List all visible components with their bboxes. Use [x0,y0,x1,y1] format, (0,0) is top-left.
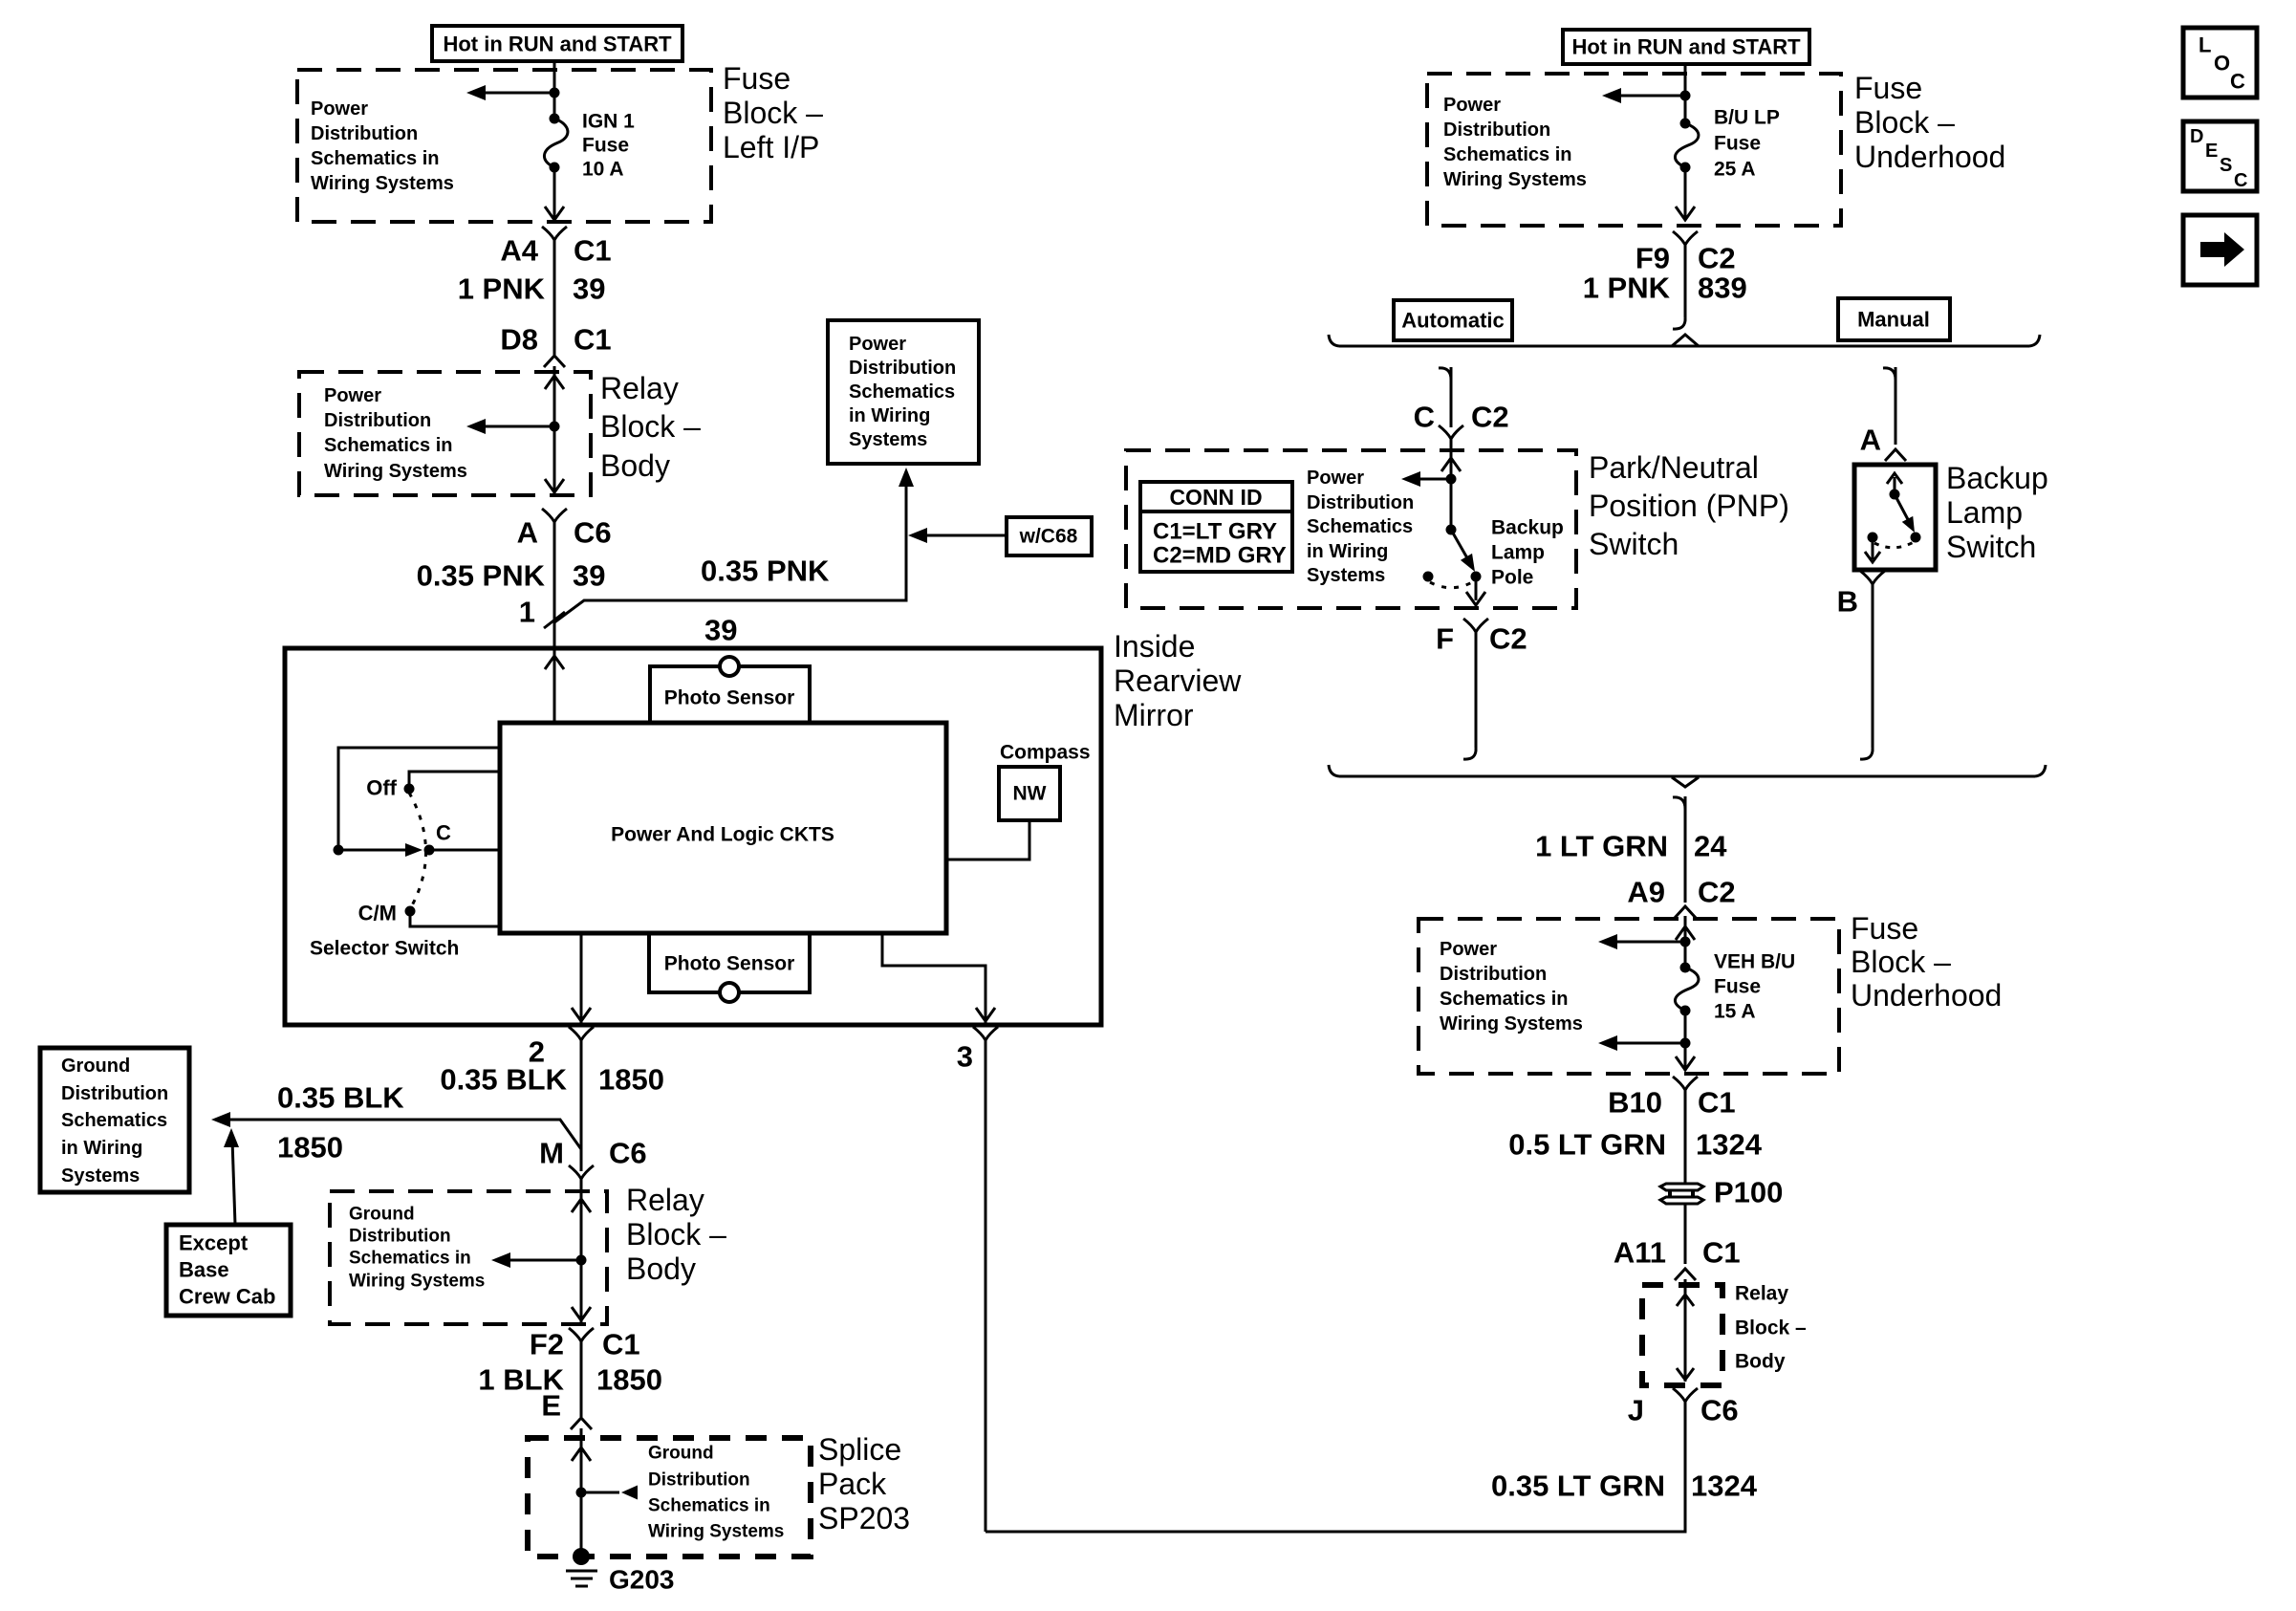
off-page arrow (fuse block left) [466,85,554,100]
backup lamp pole contact dot [1471,572,1482,582]
w/C68 box [1007,517,1092,555]
svg-text:Fuse: Fuse [582,135,629,157]
svg-text:Distribution: Distribution [61,1083,168,1104]
wire: circuit 39 segment [553,240,556,355]
junction dot relay block [550,422,560,432]
label M and C6 [539,1137,646,1170]
photo sensor (bottom) [649,933,810,1002]
ground distribution schematics solid box [40,1048,189,1192]
arrow up inside splice pack [572,1448,591,1461]
svg-text:Wiring Systems: Wiring Systems [311,173,454,194]
inside rearview mirror box [285,648,1101,1025]
label box: Hot in RUN and START (right) [1563,30,1809,64]
svg-text:Ground: Ground [648,1444,714,1464]
svg-text:0.5 LT GRN: 0.5 LT GRN [1508,1128,1666,1162]
connector fork J/C6 [1673,1388,1698,1402]
text: power distribution schematics (underhood top) [1443,95,1587,190]
svg-text:Ground: Ground [349,1205,415,1225]
svg-text:39: 39 [573,559,605,593]
wire pole to box edge [1475,577,1478,600]
junction dot underhood lower (bottom) [1680,1038,1691,1049]
svg-text:Schematics: Schematics [61,1110,167,1131]
svg-text:Distribution: Distribution [648,1470,750,1491]
wire into underhood lower [1684,916,1687,968]
svg-text:Schematics in: Schematics in [311,148,440,169]
svg-text:Wiring Systems: Wiring Systems [1443,169,1587,190]
svg-text:Off: Off [366,776,397,800]
wire P100 to A11 [1684,1204,1687,1264]
svg-text:in Wiring: in Wiring [61,1138,142,1159]
text: ground distribution schematics (splice pack) [648,1444,784,1542]
backup lamp switch box [1854,465,1936,570]
connector fork F2/C1 [569,1328,594,1341]
svg-text:Distribution: Distribution [1440,964,1547,985]
svg-text:Except: Except [179,1231,249,1255]
backup switch arm [1895,494,1920,535]
arrow up inside relay right [1677,1295,1694,1306]
arrow down PNP exit [1466,592,1485,605]
svg-text:NW: NW [1013,783,1047,805]
selector switch bracket wire [338,748,500,845]
svg-text:C6: C6 [574,516,612,550]
svg-text:1: 1 [519,596,535,629]
arrow down relay right exit [1677,1368,1694,1380]
PNP switch arm with arrowhead [1451,530,1481,576]
svg-text:F2: F2 [530,1328,564,1361]
svg-text:IGN 1: IGN 1 [582,111,635,133]
text: power distribution schematics (relay block) [324,385,467,482]
hook 1 LT GRN wire start [1673,797,1685,809]
svg-text:1850: 1850 [277,1131,343,1165]
upper bus left curl [1329,335,1339,346]
svg-text:C/M: C/M [358,902,397,925]
automatic branch wire [1450,367,1453,427]
svg-text:Power: Power [849,334,906,355]
svg-text:Ground: Ground [61,1056,130,1077]
connector fork M/C6 [569,1165,594,1179]
hook at 1 PNK wire end [1673,317,1685,329]
wire fuse output underhood [1684,167,1687,218]
svg-text:SP203: SP203 [818,1501,910,1535]
svg-text:Schematics in: Schematics in [349,1249,471,1269]
legend arrow box [2183,215,2257,285]
labels 0.35 PNK 39 [417,559,606,593]
PNP switch pole dot [1446,525,1457,535]
label: Inside Rearview Mirror [1114,629,1242,732]
svg-text:C: C [2234,170,2247,191]
wire: 0.35 PNK segment to mirror [553,522,556,648]
svg-text:in Wiring: in Wiring [849,405,930,426]
wire through relay block lower [580,1179,583,1322]
label: Backup Lamp Pole [1491,517,1564,589]
svg-text:Distribution: Distribution [1307,492,1414,513]
svg-text:Switch: Switch [1589,527,1679,561]
svg-text:Backup: Backup [1491,517,1564,539]
legend LOC box [2183,28,2257,98]
svg-text:Wiring Systems: Wiring Systems [648,1522,784,1542]
svg-text:Distribution: Distribution [324,410,431,431]
svg-text:CONN ID: CONN ID [1169,485,1262,510]
svg-text:Systems: Systems [1307,565,1385,586]
arrow down relay block exit [545,479,564,492]
wire: branch 0.35 PNK 39 to w/C68 [554,478,906,622]
label: Relay Block - Body (right) [1735,1283,1807,1373]
inline connector P100 [1660,1184,1703,1204]
arrow down underhood lower exit [1676,1056,1695,1070]
fuse block underhood dashed box (lower) [1419,919,1839,1074]
connector chevron D8 [544,356,565,367]
connector fork pin 3 [973,1027,998,1040]
off-page arrow lower (underhood lower) [1598,1035,1685,1051]
label: Backup Lamp Switch [1946,461,2048,564]
labels 0.35 LT GRN 1324 [1491,1469,1758,1503]
svg-text:Schematics: Schematics [849,381,955,403]
backup switch left contact dot [1868,533,1878,543]
manual branch hook [1883,368,1895,380]
svg-text:C6: C6 [609,1137,647,1170]
labels J C6 [1628,1394,1739,1427]
junction dot underhood lower (top) [1680,937,1691,947]
arrow except box to branch [224,1128,239,1225]
svg-text:Park/Neutral: Park/Neutral [1589,450,1759,485]
svg-text:C: C [2230,70,2245,94]
svg-text:Block –: Block – [1851,945,1951,979]
fuse VEH B/U 15 A [1675,951,1795,1023]
svg-text:C2: C2 [1489,622,1527,656]
connector fork F9/C2 [1673,231,1698,245]
relay block body dashed box (left lower) [330,1191,607,1324]
wire pin 3 inside mirror [882,933,986,1023]
automatic branch hook [1439,368,1451,380]
hook B wire end [1860,748,1873,759]
svg-text:1 PNK: 1 PNK [1583,272,1671,305]
svg-text:w/C68: w/C68 [1019,526,1078,548]
wire 1 PNK 839 [1684,245,1687,317]
park/neutral position switch dashed box [1126,450,1576,608]
wire B to lower bus [1872,584,1874,748]
svg-text:P100: P100 [1714,1176,1783,1209]
svg-text:Hot in RUN and START: Hot in RUN and START [443,33,672,56]
connector fork B10/C1 [1673,1077,1698,1090]
wire: hot feed underhood [1684,64,1687,123]
svg-text:C2: C2 [1471,401,1509,434]
svg-text:Crew Cab: Crew Cab [179,1285,275,1309]
svg-text:0.35 BLK: 0.35 BLK [440,1063,567,1097]
svg-text:10 A: 10 A [582,159,624,181]
svg-text:Wiring Systems: Wiring Systems [349,1272,485,1292]
svg-text:Photo Sensor: Photo Sensor [664,953,795,975]
svg-text:Backup: Backup [1946,461,2048,495]
svg-text:B/U LP: B/U LP [1714,107,1780,129]
contact C dot and wire [424,845,501,856]
off-page arrow (underhood top) [1602,88,1685,103]
labels 0.5 LT GRN 1324 [1508,1128,1763,1162]
off-page arrow (PNP) [1401,471,1451,487]
wire pin 2 to M/C6 [580,1040,583,1171]
branch labels 0.35 PNK 39 [701,555,830,647]
lower bus merge chevron [1672,777,1699,787]
svg-text:C1=LT GRY: C1=LT GRY [1153,519,1277,545]
svg-text:0.35 PNK: 0.35 PNK [417,559,546,593]
off-page arrow (splice pack) [581,1486,638,1500]
selector dashed arc [409,793,426,907]
svg-text:Photo Sensor: Photo Sensor [664,687,795,709]
wire 1 LT GRN 24 [1684,796,1687,903]
svg-text:Power And Logic CKTS: Power And Logic CKTS [611,824,834,846]
svg-text:Power: Power [1440,939,1497,960]
svg-text:in Wiring: in Wiring [1307,541,1388,562]
labels 1 LT GRN 24 [1535,830,1727,863]
svg-text:Block –: Block – [626,1217,726,1252]
ground branch wire 0.35 BLK 1850 [211,1112,581,1149]
wire through relay block [553,366,556,493]
label box: Hot in RUN and START (left) [432,26,682,61]
contact C/M dot and wire [405,906,501,927]
svg-text:Mirror: Mirror [1114,698,1194,732]
arrow down relay lower exit [572,1307,591,1320]
labels 1 BLK 1850 [478,1363,662,1397]
svg-text:Distribution: Distribution [849,358,956,379]
junction dot splice pack [576,1488,587,1498]
labels A C6 [517,516,612,550]
connector fork A4/C1 [542,227,567,240]
svg-text:M: M [539,1137,564,1170]
svg-text:J: J [1628,1394,1644,1427]
svg-text:Fuse: Fuse [1851,911,1918,946]
svg-text:Block –: Block – [600,409,701,444]
off-page arrow upper (underhood lower) [1598,934,1685,949]
svg-text:Fuse: Fuse [723,61,791,96]
backup switch right contact dot [1911,533,1921,543]
svg-text:1850: 1850 [598,1063,664,1097]
arrow up into power dist box [899,468,914,487]
wire into PNP box [1450,439,1453,485]
svg-text:Hot in RUN and START: Hot in RUN and START [1571,35,1801,59]
svg-text:Pack: Pack [818,1467,887,1501]
labels F9 C2 [1635,242,1736,275]
svg-text:1 LT GRN: 1 LT GRN [1535,830,1668,863]
label: Fuse Block - Left I/P [723,61,823,164]
svg-text:Splice: Splice [818,1432,901,1467]
svg-text:Underhood: Underhood [1851,978,2002,1012]
connector fork pin 2 [569,1027,594,1040]
label: Fuse Block - Underhood (lower) [1851,911,2002,1012]
svg-text:0.35 LT GRN: 0.35 LT GRN [1491,1469,1665,1503]
svg-text:C1: C1 [574,323,612,357]
svg-text:Distribution: Distribution [311,123,418,144]
PNP left contact dot [1423,572,1434,582]
svg-text:Switch: Switch [1946,530,2036,564]
connector fork B [1860,571,1885,584]
svg-text:Left I/P: Left I/P [723,130,819,164]
wire 0.35 LT GRN 1324 down and across [986,1402,1685,1532]
svg-text:1 PNK: 1 PNK [458,272,546,306]
arrowhead down underhood exit [1676,207,1695,220]
wire inside splice pack [580,1428,583,1557]
svg-text:B: B [1837,585,1858,619]
power distribution schematics solid box [828,320,979,464]
wire junction to switch arm [1450,479,1453,530]
connector chevron E [571,1418,592,1429]
power and logic CKTS box [500,723,946,933]
svg-text:S: S [2220,155,2232,176]
svg-text:D8: D8 [500,323,538,357]
photo sensor (top) [650,657,810,723]
backup switch dashed arc [1874,542,1914,548]
upper bus split chevron [1672,335,1699,346]
arrow up inside relay block [545,376,564,389]
svg-text:C2=MD GRY: C2=MD GRY [1153,543,1287,569]
svg-text:Rearview: Rearview [1114,664,1242,698]
svg-text:Lamp: Lamp [1491,542,1545,564]
svg-text:839: 839 [1698,272,1747,305]
svg-text:E: E [541,1389,561,1423]
wire F to lower bus [1475,632,1478,748]
relay block body dashed box (left upper) [299,372,591,495]
svg-text:Fuse: Fuse [1854,71,1922,105]
svg-text:3: 3 [957,1040,973,1074]
svg-text:Lamp: Lamp [1946,495,2023,530]
labels 1 PNK 839 [1583,272,1747,305]
svg-text:Relay: Relay [600,371,679,405]
svg-text:F9: F9 [1635,242,1670,275]
text: power distribution schematics (fuse block left) [311,98,454,194]
arrow down pin 3 [976,1008,995,1021]
lower bus left curl [1329,765,1339,776]
arrow up at mirror entry [545,656,564,669]
splice slash at node 1 [544,612,565,628]
svg-text:Position (PNP): Position (PNP) [1589,489,1789,523]
PNP dashed arc [1430,581,1474,588]
fuse IGN 1 10 A [544,111,635,181]
svg-text:Fuse: Fuse [1714,976,1761,998]
svg-text:O: O [2214,52,2230,76]
svg-text:1324: 1324 [1696,1128,1763,1162]
backup switch exit arrow [1865,537,1880,562]
svg-text:Inside: Inside [1114,629,1195,664]
junction dot PNP [1446,474,1457,485]
text: power distribution schematics (underhood lower) [1440,939,1583,1034]
labels A11 C1 [1614,1236,1741,1270]
label box: Automatic [1394,300,1512,340]
svg-text:A11: A11 [1614,1236,1666,1270]
connector fork A/C6 [542,509,567,522]
arrow up inside underhood lower [1676,926,1695,940]
label: Fuse Block - Underhood (top) [1854,71,2005,174]
svg-text:0.35 BLK: 0.35 BLK [277,1081,404,1115]
splice pack SP203 dashed box [528,1438,811,1557]
svg-text:G203: G203 [609,1565,675,1595]
off-page arrow (relay block) [466,419,554,434]
svg-text:L: L [2199,33,2211,57]
svg-text:1324: 1324 [1691,1469,1758,1503]
svg-text:B10: B10 [1608,1086,1662,1120]
manual branch wire [1895,367,1897,445]
wire: hot feed into fuse block left [553,61,556,119]
fuse block left I/P dashed box [297,70,711,222]
text: ground distribution schematics (relay block lower) [349,1205,485,1292]
wire through relay right [1684,1279,1687,1382]
labels B10 C1 [1608,1086,1736,1120]
off-page arrow (relay lower) [491,1252,581,1268]
svg-text:Manual: Manual [1857,308,1930,332]
connector fork F/C2 [1463,619,1488,632]
legend DESC box [2183,121,2257,191]
connector fork C/C2 [1439,425,1463,439]
svg-text:Relay: Relay [1735,1283,1788,1305]
svg-text:Distribution: Distribution [1443,120,1550,141]
svg-text:Schematics in: Schematics in [1440,989,1569,1010]
svg-text:24: 24 [1694,830,1727,863]
fuse B/U LP 25 A [1675,107,1779,181]
svg-text:Underhood: Underhood [1854,140,2005,174]
connector chevron A11 [1675,1269,1696,1280]
svg-text:Systems: Systems [61,1165,140,1186]
wire: fuse output [553,167,556,218]
svg-text:Relay: Relay [626,1183,704,1217]
wire fuse output underhood lower [1684,1011,1687,1071]
compass NW box [999,767,1060,820]
svg-text:15 A: 15 A [1714,1001,1756,1023]
wire pin 1 into mirror [553,648,556,723]
lower bus wire [1339,775,2035,778]
selector switch wiper arrow [338,843,422,857]
wire compass to logic box [946,820,1029,860]
lower bus right curl [2035,765,2046,776]
junction dot (fuse block left) [550,88,560,98]
junction dot (underhood top) [1680,91,1691,101]
connector fork A9/C2 [1675,906,1696,918]
arrow up inside relay lower [572,1199,591,1212]
contact Off dot and wire [404,772,501,795]
fuse block underhood dashed box (top) [1427,74,1841,226]
svg-text:C1: C1 [574,234,612,268]
svg-text:Schematics: Schematics [1307,516,1413,537]
arrow down pin 2 [572,1008,591,1021]
svg-text:Wiring Systems: Wiring Systems [1440,1013,1583,1034]
hook F wire end [1463,748,1476,759]
labels 1 PNK 39 [458,272,606,306]
arrow up inside PNP [1441,458,1461,471]
branch labels 0.35 BLK 1850 [277,1081,404,1165]
upper bus wire [1339,345,2029,348]
CONN ID table [1140,482,1292,572]
svg-text:Power: Power [1307,468,1364,489]
relay block body dashed box (right) [1642,1285,1722,1385]
svg-text:Schematics in: Schematics in [648,1496,770,1516]
svg-text:VEH B/U: VEH B/U [1714,951,1795,973]
labels 0.35 BLK 1850 (pin2) [440,1063,664,1097]
svg-text:A4: A4 [500,234,538,268]
svg-text:Body: Body [626,1252,696,1286]
svg-text:F: F [1436,622,1454,656]
label box: Manual [1838,298,1950,340]
svg-text:Body: Body [600,448,670,483]
arrow w/C68 to branch [908,528,1007,543]
svg-text:Power: Power [1443,95,1501,116]
svg-text:Selector Switch: Selector Switch [310,938,459,960]
label: Relay Block - Body (lower) [626,1183,726,1286]
svg-text:Schematics in: Schematics in [324,435,453,456]
text: power distribution schematics (PNP) [1307,468,1414,586]
svg-text:Fuse: Fuse [1714,133,1761,155]
wire 0.5 LT GRN 1324 [1684,1090,1687,1184]
svg-text:Distribution: Distribution [349,1227,451,1247]
svg-text:C2: C2 [1698,876,1736,909]
except base crew cab box [166,1225,291,1316]
svg-text:C: C [1414,401,1435,434]
svg-text:Block –: Block – [1854,105,1955,140]
